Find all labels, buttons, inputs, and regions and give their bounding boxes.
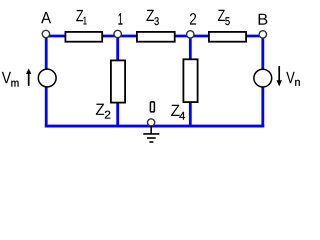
wire left column source Vm down to bottom bus	[45, 87, 48, 127]
source Vm	[38, 69, 56, 87]
source label Vm	[2, 72, 19, 87]
node label 0	[150, 102, 154, 112]
wire left column node A down to source Vm	[45, 36, 48, 69]
node 2	[187, 31, 194, 38]
arrow up for Vm	[26, 68, 31, 85]
value label Z4	[171, 105, 185, 120]
wire node 2 down to Z4	[189, 36, 192, 60]
value label Z2	[96, 104, 110, 119]
value label Z5	[218, 10, 230, 25]
node B	[259, 31, 266, 38]
impedance Z4	[183, 59, 197, 102]
impedance Z1	[65, 32, 102, 42]
node 1	[114, 30, 121, 37]
wire bottom bus	[45, 125, 264, 128]
wire top rail Z1 to Z3 through node 1	[103, 35, 137, 38]
node label B	[259, 14, 268, 25]
node label 2	[190, 13, 196, 25]
wire Z4 down to bottom bus	[189, 102, 192, 126]
value label Z3	[146, 10, 158, 25]
wire top rail Z3 to Z5 through node 2	[175, 35, 209, 38]
wire top rail Z5 to B	[247, 35, 263, 38]
source label Vn	[286, 72, 300, 86]
impedance Z2	[111, 60, 125, 102]
wire Z2 down to bottom bus	[116, 103, 119, 127]
source Vn	[254, 69, 272, 87]
node label 1	[119, 13, 123, 24]
ground	[143, 126, 159, 143]
node A	[42, 30, 49, 37]
impedance Z5	[209, 32, 246, 42]
wire node 1 down to Z2	[116, 36, 119, 61]
node 0 ground node	[148, 119, 155, 126]
arrow down for Vn	[277, 66, 282, 87]
impedance Z3	[137, 32, 175, 42]
value label Z1	[76, 10, 86, 25]
wire top rail A to Z1	[46, 35, 65, 38]
node label A	[41, 12, 51, 23]
wire right column node B down to source Vn	[261, 36, 264, 70]
wire right column source Vn down to bottom bus	[261, 87, 264, 127]
